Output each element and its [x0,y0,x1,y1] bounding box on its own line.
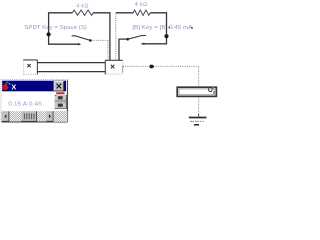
thumb [21,111,36,121]
wire X1 to X2 lower [38,71,106,73]
power supply U1 [177,87,216,97]
wire R2 to right corner and down to switch S2 contact [142,13,167,44]
svg-text:X: X [11,82,16,91]
svg-text:4 kΩ: 4 kΩ [135,2,148,8]
dashed wire from S1 pivot to lamp X2 [92,40,108,60]
junction node left [47,32,51,36]
svg-text:4 kΩ: 4 kΩ [76,3,89,9]
close button [54,81,64,91]
red marks in S2 label [169,27,171,29]
ground [189,118,207,125]
lamp X1 (box with cross) [23,60,37,75]
switch S1 blade [72,36,91,41]
wire top-left horizontal segment [49,12,73,14]
svg-text:[B] Key = [B] 0.45 mA: [B] Key = [B] 0.45 mA [132,25,193,31]
dashed wire supply to ground [198,97,200,117]
switch S2 contact arrow [141,43,144,45]
resistor R1 [72,10,93,15]
lamp X2 (box with cross) [105,60,122,74]
right button lower [55,102,67,109]
switch S1 pivot [89,39,92,42]
dashed vertical drop right of middle [115,13,117,60]
junction node on dashed wire [149,65,154,69]
wire left vertical drop and run to switch S1 [49,12,80,44]
red bar [56,92,64,94]
resistor R2 [133,10,150,15]
switch S1 contact arrow [78,43,81,46]
wire R1 to middle drop [93,12,110,14]
wire X1 to X2 upper [38,62,106,64]
horizontal scrollbar [2,111,68,122]
marquee dotted frame [1,80,68,122]
wire middle-left vertical drop to lamp X2 [109,12,111,60]
window body [2,80,68,121]
corner grip [54,111,68,122]
svg-text:0.15 A 0.45: 0.15 A 0.45 [8,102,42,108]
switch S2 blade [128,36,146,40]
wire switch S2 pole to drop [119,39,127,60]
right button upper [55,95,67,101]
wire top-right horizontal segment [116,12,133,14]
left arrow button [2,111,9,121]
dashed wire lamp X2 to supply [123,66,199,86]
switch S2 pivot [126,38,129,41]
instrument window [1,80,68,122]
red segment on ground wire [198,114,200,117]
title icon (red ball) [2,84,8,90]
title bar [2,81,66,92]
lamp X2 right edge lower segment [122,66,124,72]
svg-text:SPDT Key = Space (S): SPDT Key = Space (S) [24,25,87,31]
junction node right [164,34,168,38]
right arrow button [46,111,53,121]
